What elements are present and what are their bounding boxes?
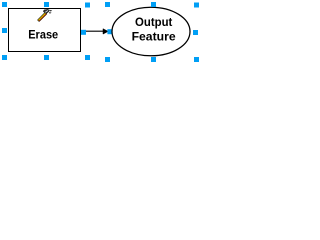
selection handle rect top-middle <box>44 2 49 7</box>
selection handle ellipse top-middle <box>151 2 156 7</box>
selection handle rect bottom-middle <box>44 55 49 60</box>
selection handle ellipse top-right <box>194 3 199 8</box>
svg-text:Erase: Erase <box>28 27 58 41</box>
svg-text:Feature: Feature <box>132 30 176 44</box>
hammer tool icon: handle <box>37 12 47 22</box>
background <box>0 0 200 65</box>
output ellipse "Output Feature" <box>112 7 190 56</box>
selection handle rect left-middle <box>2 28 7 33</box>
process rectangle "Erase" <box>9 9 81 52</box>
selection handle ellipse right-middle <box>193 30 198 35</box>
selection handle ellipse bottom-right <box>194 57 199 62</box>
svg-text:Output: Output <box>135 15 172 29</box>
connector wire <box>80 30 104 32</box>
connector arrowhead <box>103 29 108 34</box>
selection handle ellipse top-left <box>105 2 110 7</box>
selection handle ellipse bottom-left <box>105 57 110 62</box>
hammer tool icon: head <box>43 9 52 14</box>
selection handle rect bottom-left <box>2 55 7 60</box>
selection handle ellipse bottom-middle <box>151 57 156 62</box>
selection handle rect top-right <box>85 3 90 8</box>
selection handle connector start <box>81 30 86 35</box>
selection handle connector end <box>107 29 112 34</box>
selection handle rect bottom-right <box>85 55 90 60</box>
selection handle rect top-left <box>2 2 7 7</box>
